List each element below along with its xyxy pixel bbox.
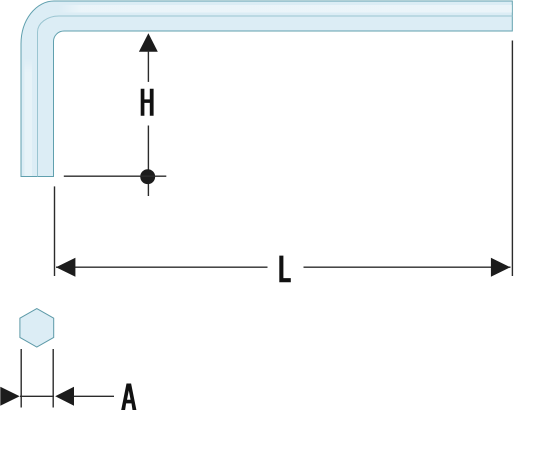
- center dot marker: [140, 169, 155, 184]
- hex key highlight band on long arm: [58, 5, 512, 13]
- label H: [141, 89, 154, 116]
- hexagon cross-section: [20, 309, 54, 347]
- A dimension line between extension lines: [20, 395, 54, 397]
- A dimension tail line: [74, 395, 114, 397]
- L dimension left extension line: [54, 186, 56, 276]
- hex key highlight band on short arm: [25, 58, 33, 176]
- hex key body (L-shaped allen key, side view): [21, 1, 512, 177]
- dimension H line lower segment: [147, 126, 149, 197]
- dimension H line upper segment: [147, 51, 149, 82]
- A dimension right arrowhead (pointing left): [55, 387, 74, 406]
- L dimension right extension line: [511, 41, 513, 277]
- L dimension right arrowhead: [491, 258, 510, 277]
- label A: [121, 384, 136, 411]
- horizontal reference line through dot: [64, 175, 167, 177]
- A dimension right extension line: [52, 349, 54, 408]
- A dimension left arrowhead (pointing right): [0, 387, 19, 406]
- A dimension left extension line: [20, 349, 22, 408]
- L dimension line right segment: [304, 266, 511, 268]
- dimension H arrowhead (up): [139, 33, 158, 51]
- hex key facet edge line: [38, 16, 513, 177]
- L dimension line left segment: [56, 266, 268, 268]
- label L: [279, 256, 291, 283]
- L dimension left arrowhead: [56, 258, 75, 277]
